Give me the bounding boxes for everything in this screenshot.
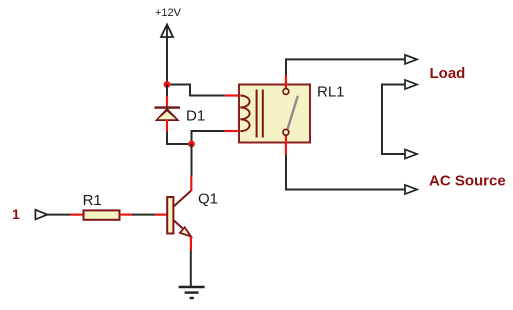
power +12V arrow symbol [161,25,173,41]
relay RL1 body [239,85,310,143]
resistor R1 [84,210,120,219]
pin: R1 right (red) [120,214,133,216]
svg-text:1: 1 [12,206,20,222]
pin: relay coil top (red) [225,94,241,96]
svg-text:Load: Load [430,65,466,82]
pin: diode cathode (red) [166,96,168,108]
svg-text:D1: D1 [186,107,205,124]
pin: transistor base (red) [155,214,167,216]
relay core lines [257,90,263,138]
wire: input to R1 [47,214,70,216]
svg-text:+12V: +12V [155,7,182,19]
wire: emitter to ground [190,251,192,288]
wire: node to relay coil top [167,85,225,96]
svg-text:AC Source: AC Source [429,173,506,190]
wire: node down to diode [166,85,168,97]
wire: diode anode to lower node [167,132,192,145]
terminal arrow 1 (top, Load feed) [405,55,417,64]
diode D1 [155,108,181,121]
svg-text:Q1: Q1 [198,191,218,208]
wire: lower node down to transistor collector [191,144,193,176]
wire: R1 to transistor base [132,214,155,216]
relay switch lever [288,96,298,129]
svg-text:RL1: RL1 [317,84,345,101]
wire: load bracket [382,85,405,155]
pin: R1 left (red) [70,214,84,216]
junction node lower [188,141,195,148]
pin: transistor emitter (red) [190,237,192,252]
terminal arrow 4 (bottom, AC Source) [405,185,417,194]
wire: relay top contact to Load terminal [286,59,405,75]
relay coil [240,96,249,132]
pin: relay coil bottom (red) [225,130,241,132]
pin: relay common contact top (red) [285,75,287,89]
pin: relay NO contact bottom (red) [285,135,287,155]
relay contact circle bottom [283,129,289,135]
input terminal arrow [35,210,47,220]
ground symbol [179,287,205,298]
pin: transistor collector (red) [190,176,192,192]
relay contact circle top [283,89,289,95]
svg-text:R1: R1 [83,192,102,209]
pin: diode anode (red) [166,120,168,133]
junction node top [164,81,171,88]
wire: lower node up-right to relay coil bottom [192,131,226,144]
wire: relay bottom contact to AC Source terminal [286,155,405,190]
terminal arrow 2 (load upper) [405,80,417,89]
transistor Q1 [167,191,191,237]
terminal arrow 3 (load lower) [405,150,417,159]
wire: +12V down to node [166,38,168,85]
